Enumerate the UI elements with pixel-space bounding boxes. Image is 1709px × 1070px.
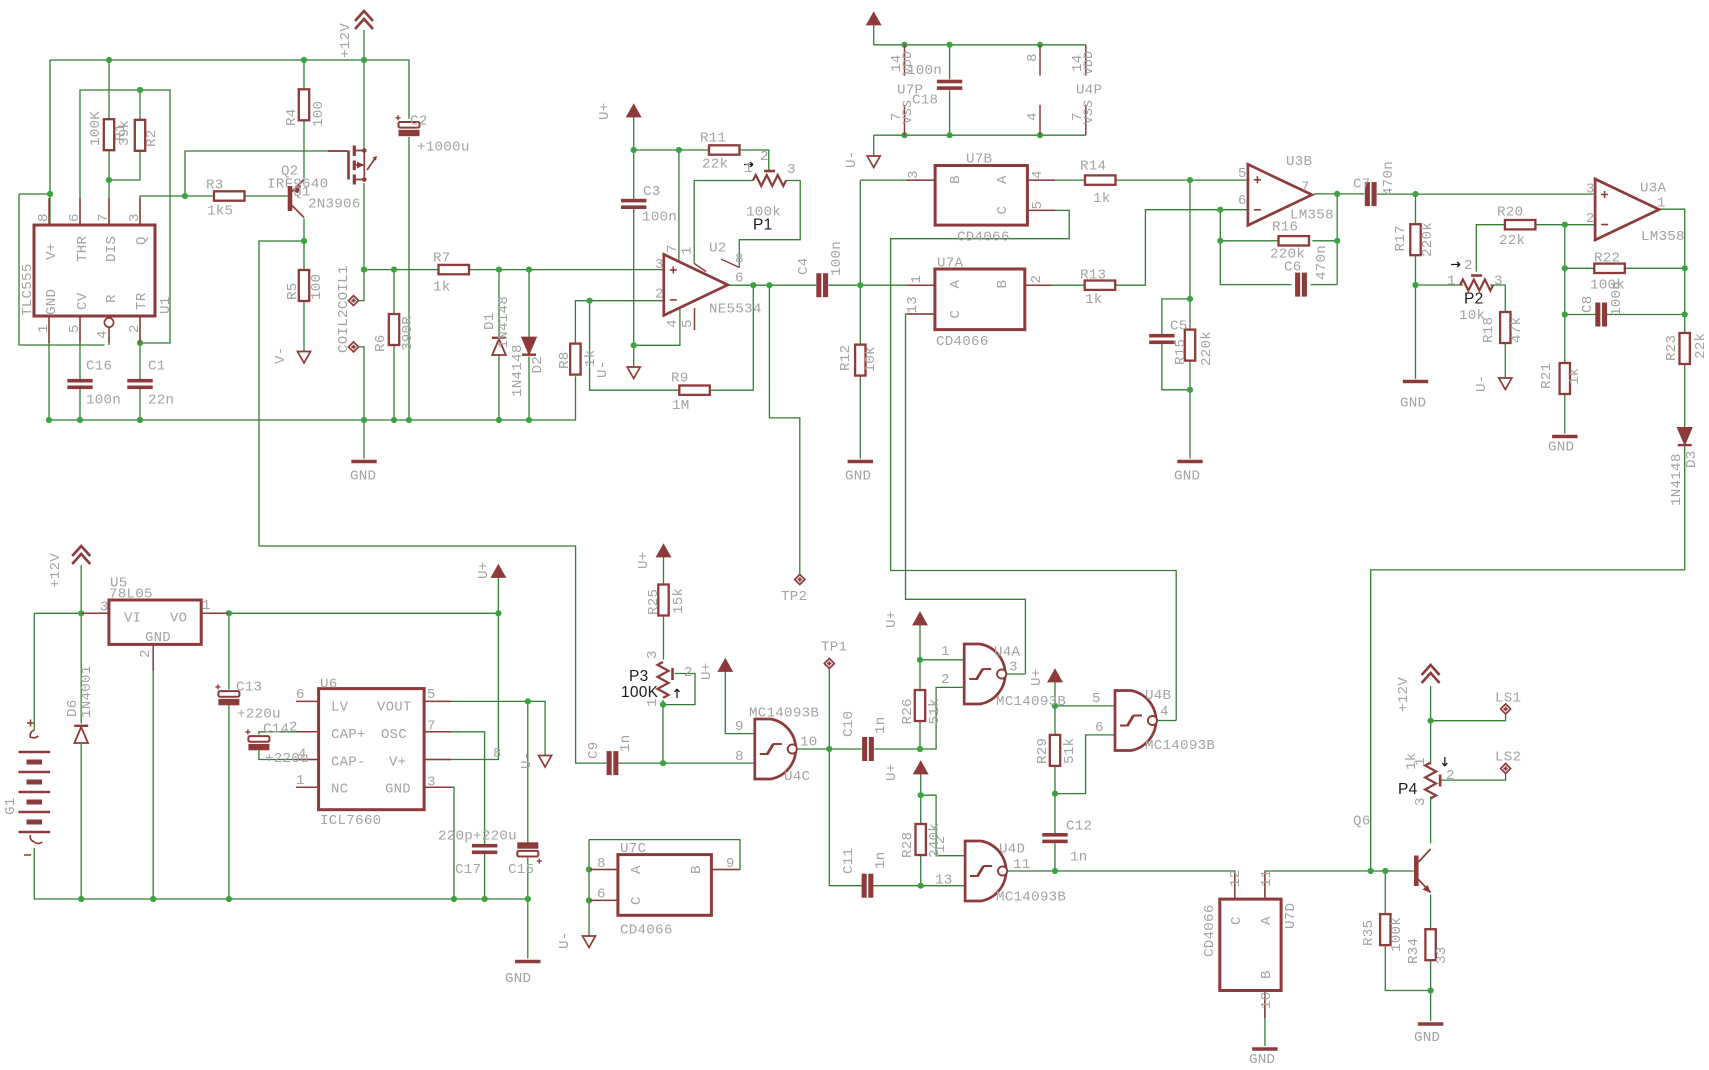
node oscillator junctions	[660, 657, 1058, 889]
wire coil pin 1 to ground	[359, 347, 365, 420]
wire R23 to D3	[1684, 364, 1686, 428]
svg-text:470n: 470n	[1314, 245, 1330, 280]
svg-text:3: 3	[1494, 274, 1503, 290]
capacitor C13	[215, 684, 239, 705]
potentiometer P1	[753, 171, 786, 186]
wire R6 top	[393, 270, 395, 314]
wire +5V rail	[229, 612, 499, 614]
wire C1 to ground rail	[139, 389, 141, 420]
svg-text:Q6: Q6	[1353, 814, 1371, 830]
capacitor C12	[1042, 833, 1067, 843]
wire D1 top	[498, 270, 500, 337]
svg-text:5: 5	[1030, 201, 1046, 210]
wire to C8 left	[1565, 314, 1596, 316]
svg-text:B: B	[689, 865, 705, 874]
wire VOUT to C15	[527, 701, 529, 843]
svg-text:2: 2	[1446, 768, 1455, 784]
svg-text:R18: R18	[1481, 317, 1497, 343]
IC U5 78L05	[109, 600, 201, 644]
transistor Q1	[290, 180, 304, 218]
svg-text:+12V: +12V	[1396, 677, 1412, 712]
svg-text:1k5: 1k5	[207, 204, 233, 220]
capacitor C4	[816, 273, 828, 297]
wire P1 pin1 to U2 pin1	[694, 181, 753, 264]
svg-text:TLC555: TLC555	[20, 263, 36, 316]
svg-text:1n: 1n	[873, 851, 889, 869]
svg-text:3: 3	[906, 170, 922, 179]
svg-text:C9: C9	[586, 741, 602, 759]
svg-text:A: A	[1259, 916, 1275, 925]
power U+ (U2)	[627, 105, 640, 117]
resistor R5	[299, 270, 309, 301]
svg-text:4: 4	[1025, 112, 1041, 121]
diode D3	[1678, 428, 1692, 445]
node VOUT junction	[525, 698, 531, 704]
wire C18 top	[949, 45, 951, 80]
svg-text:C: C	[1229, 916, 1245, 925]
power pins U3P	[1039, 45, 1041, 135]
power +12V (supply)	[72, 546, 90, 564]
wire U6 GND pin 3	[424, 787, 454, 899]
capacitor C3	[621, 199, 646, 209]
resistor R4	[299, 89, 309, 120]
svg-text:MC14093B: MC14093B	[749, 706, 819, 722]
wire D1 bottom	[498, 356, 500, 421]
wire U7B pin 3	[860, 179, 935, 181]
wire C7 to U3A pin 3	[1377, 193, 1595, 195]
node C5 R15 junctions	[1187, 177, 1193, 393]
resistor R9	[679, 386, 710, 395]
wire U7B pin3 drop	[859, 180, 861, 285]
wire R8 top	[575, 301, 589, 344]
wire C3 to U- node	[633, 208, 635, 345]
power V- (U6 VOUT)	[539, 756, 552, 768]
node V+ rail junctions	[106, 57, 367, 63]
wire inv node down	[1564, 225, 1566, 269]
wire R18 to V-	[1504, 343, 1506, 378]
svg-text:C14: C14	[263, 722, 289, 738]
svg-text:3: 3	[655, 257, 664, 273]
svg-text:100n: 100n	[642, 210, 677, 226]
IC U7C CD4066	[618, 855, 712, 916]
node U+ C3 junctions	[631, 147, 682, 349]
svg-text:C2: C2	[410, 114, 428, 130]
svg-text:R21: R21	[1539, 363, 1555, 389]
resistor R21	[1560, 363, 1570, 394]
svg-text:390R: 390R	[400, 316, 416, 351]
wire R28 bottom	[920, 855, 922, 886]
power pins U7P	[904, 45, 906, 135]
wire to U4A pin 2	[920, 687, 964, 749]
svg-text:22n: 22n	[148, 393, 174, 409]
svg-text:Q: Q	[134, 236, 150, 245]
wire U3B output to C7	[1314, 193, 1364, 195]
svg-text:VSS: VSS	[1081, 100, 1096, 124]
svg-text:B: B	[995, 280, 1011, 289]
power V- (R5)	[298, 352, 311, 364]
wire to R21 top	[1564, 315, 1566, 364]
svg-text:U2: U2	[709, 241, 727, 257]
wire D2 top	[528, 270, 530, 338]
svg-text:10: 10	[1259, 991, 1275, 1009]
svg-text:OSC: OSC	[381, 727, 407, 743]
wire Q1 collector to R5	[303, 219, 305, 271]
svg-text:1n: 1n	[618, 734, 634, 752]
resistor R16	[1279, 236, 1310, 245]
wire U7B pin5 to U4B output	[891, 210, 1177, 720]
IC U1 TLC555	[34, 225, 155, 316]
svg-text:1: 1	[1413, 757, 1429, 766]
capacitor C1	[127, 379, 152, 389]
svg-text:5: 5	[1238, 166, 1247, 182]
wire V+ to R4 top	[303, 60, 305, 89]
resistor R11	[709, 145, 740, 154]
wire R1 bottom to DIS pin 7	[108, 150, 110, 225]
wire R17 bottom	[1415, 255, 1417, 285]
svg-text:CD4066: CD4066	[936, 334, 989, 350]
svg-text:CAP+: CAP+	[331, 727, 366, 743]
wire C11 to U4D pin 13	[873, 885, 965, 887]
NAND gate U4D MC14093B	[965, 841, 1007, 901]
wire C12 to U4D output row	[1054, 843, 1056, 871]
svg-text:51k: 51k	[927, 698, 943, 724]
svg-text:C7: C7	[1353, 177, 1371, 193]
power U- (U2)	[627, 367, 640, 379]
svg-text:R1: R1	[113, 123, 129, 141]
wire U+ row to R11	[634, 149, 709, 151]
svg-text:7: 7	[427, 719, 436, 735]
wire C8 right	[1607, 314, 1685, 316]
svg-text:1: 1	[202, 598, 211, 614]
wire down to C8	[1564, 268, 1566, 314]
svg-text:VDD: VDD	[1081, 51, 1096, 75]
svg-text:1: 1	[1447, 274, 1456, 290]
svg-text:3: 3	[1586, 182, 1595, 198]
svg-text:U-: U-	[519, 751, 535, 769]
svg-text:8: 8	[1025, 53, 1041, 62]
connector pin COIL2	[349, 296, 359, 306]
svg-text:2: 2	[655, 287, 664, 303]
wire reset loop to pin 4	[19, 194, 105, 345]
svg-text:GND: GND	[44, 289, 60, 315]
svg-text:R34: R34	[1406, 938, 1422, 964]
svg-text:100: 100	[311, 101, 327, 127]
U2 comp pin leads	[694, 259, 739, 272]
resistor R15	[1185, 330, 1195, 361]
svg-text:CD4066: CD4066	[1202, 904, 1218, 957]
svg-text:3: 3	[1413, 797, 1429, 806]
ground GND C15	[515, 960, 540, 964]
svg-text:U7B: U7B	[966, 152, 992, 168]
svg-text:GND: GND	[1174, 469, 1200, 485]
capacitor C16	[67, 379, 92, 389]
svg-text:C11: C11	[841, 848, 857, 874]
wire R11 to P1 wiper	[740, 150, 769, 172]
svg-text:MC14093B: MC14093B	[996, 890, 1066, 906]
wire +12V rail to U5	[34, 612, 109, 614]
power U+ (U7P)	[867, 13, 880, 25]
wire U6 CAP+ to C14	[259, 732, 319, 735]
wire 555 output Q	[140, 196, 185, 225]
svg-text:51k: 51k	[1062, 738, 1078, 764]
power U+ (R25)	[657, 545, 670, 557]
wire C15 to ground rail	[527, 858, 529, 899]
svg-text:C4: C4	[796, 257, 812, 275]
svg-text:5: 5	[427, 687, 436, 703]
svg-text:1k: 1k	[433, 280, 451, 296]
wire VSS rail to U- arrow	[873, 135, 875, 156]
wire ground stem	[527, 899, 529, 959]
svg-text:R12: R12	[838, 345, 854, 371]
wire U5 VO	[201, 612, 229, 614]
wire R15 to GND	[1189, 390, 1191, 459]
svg-text:C18: C18	[912, 93, 938, 109]
svg-text:U4A: U4A	[994, 645, 1021, 661]
svg-text:1: 1	[941, 644, 950, 660]
transistor Q6	[1416, 849, 1431, 893]
svg-text:+12V: +12V	[48, 553, 64, 588]
wire P4 wiper to LS2	[1441, 774, 1506, 780]
svg-text:MC14093B: MC14093B	[996, 694, 1066, 710]
svg-text:1: 1	[680, 246, 696, 255]
svg-text:D2: D2	[530, 356, 546, 374]
power V- (R18)	[1499, 378, 1512, 390]
wire CV pin5 to C16	[79, 316, 81, 379]
capacitor C8	[1595, 303, 1607, 327]
svg-text:CV: CV	[75, 292, 91, 310]
svg-text:R13: R13	[1080, 268, 1106, 284]
wire to C11 left	[829, 749, 862, 886]
capacitor C15	[517, 842, 542, 863]
svg-text:1M: 1M	[672, 398, 690, 414]
svg-text:CD4066: CD4066	[957, 230, 1010, 246]
resistor R14	[1085, 175, 1116, 184]
wire U4A output	[1007, 673, 1026, 675]
wire to R29 top	[1054, 706, 1056, 735]
power pins U4P	[1085, 45, 1087, 135]
wire P4 pin3 to Q6 collector	[1430, 796, 1432, 843]
svg-text:GND: GND	[145, 630, 171, 646]
svg-text:COIL2COIL1: COIL2COIL1	[336, 265, 352, 353]
wire U4C output to C10	[797, 748, 862, 750]
svg-text:U-: U-	[1474, 374, 1490, 392]
svg-text:5: 5	[1092, 691, 1101, 707]
svg-text:1: 1	[645, 698, 661, 707]
wire to R35 top	[1384, 871, 1386, 914]
svg-text:6: 6	[1095, 720, 1104, 736]
resistor R26	[915, 690, 925, 721]
svg-text:U3B: U3B	[1286, 154, 1312, 170]
op-amp U3B LM358	[1248, 164, 1312, 225]
wire R34 to GND	[1430, 960, 1432, 1021]
wire to R16 left	[1220, 240, 1278, 242]
svg-text:100: 100	[309, 274, 325, 300]
diode D6	[74, 726, 88, 743]
svg-text:CAP-: CAP-	[331, 755, 366, 771]
svg-text:R25: R25	[646, 589, 662, 615]
wire U7A pin2 to R13	[1025, 284, 1085, 286]
wire VDD rail	[874, 44, 1086, 46]
svg-text:U+: U+	[884, 610, 900, 628]
node +5V rail junctions	[78, 610, 501, 616]
wire R20 to U3A pin 2	[1535, 224, 1595, 226]
svg-text:8: 8	[597, 856, 606, 872]
wire Q6 emitter to R34	[1430, 895, 1432, 930]
wire MOSFET drain to coil pin 2	[359, 183, 365, 301]
wire P3 wiper loop	[663, 674, 695, 705]
svg-text:C: C	[948, 310, 964, 319]
resistor R17	[1410, 224, 1420, 255]
wire +12V to LS1 node	[1430, 686, 1432, 721]
svg-text:10: 10	[800, 735, 818, 751]
wire drain to R7	[364, 269, 439, 271]
svg-text:220k: 220k	[1420, 222, 1436, 257]
wire C9 to U4C pin 8	[619, 762, 755, 764]
svg-text:100n: 100n	[1609, 281, 1625, 316]
wire U3B feedback vertical	[1336, 194, 1338, 285]
wire R14 to U3B pin 5	[1116, 179, 1248, 181]
wire R16 right	[1312, 240, 1337, 242]
battery G1	[19, 720, 51, 856]
svg-text:R17: R17	[1393, 225, 1409, 251]
wire P1 pin3 to U2 pin8	[739, 181, 800, 268]
svg-text:4: 4	[95, 330, 111, 339]
wire ground rail	[49, 376, 576, 420]
wire to P4 pin 1	[1430, 721, 1432, 765]
svg-text:U-: U-	[557, 931, 573, 949]
wire to C13	[228, 613, 230, 689]
wire to R17 top	[1415, 194, 1417, 224]
svg-text:R22: R22	[1594, 251, 1620, 267]
wire pin4 bubble stem	[108, 328, 110, 346]
svg-text:C: C	[629, 896, 645, 905]
wire V+ to R1 top	[108, 60, 110, 119]
wire U3B pin6 branch	[1219, 210, 1221, 241]
svg-text:7: 7	[96, 213, 112, 222]
power U+ (U4B)	[1049, 670, 1062, 682]
svg-text:C12: C12	[1066, 819, 1092, 835]
ground GND 555	[351, 460, 376, 464]
svg-text:LS1: LS1	[1495, 691, 1521, 707]
svg-text:9: 9	[735, 719, 744, 735]
svg-text:470n: 470n	[1381, 161, 1397, 196]
wire to D6 cathode	[80, 613, 82, 723]
wire R9 to output	[710, 285, 754, 390]
svg-text:1N4148: 1N4148	[1669, 453, 1685, 506]
svg-text:P1: P1	[753, 217, 772, 234]
wire U2 pin 2 row	[590, 300, 664, 302]
wire U7C loop pin 9	[589, 840, 740, 870]
wire to R12 top	[859, 285, 861, 344]
power U+ (U6)	[492, 566, 505, 578]
wire to U2 pin 7	[678, 150, 680, 262]
wire U2 pin 4	[634, 306, 680, 346]
svg-text:6: 6	[67, 213, 83, 222]
wire U7D pin 11 to Q6 base	[1265, 871, 1371, 899]
wire Q1 collector to C9	[259, 241, 606, 763]
svg-text:100n: 100n	[86, 393, 121, 409]
resistor R34	[1425, 929, 1435, 960]
wire C10 to R26 node	[874, 748, 920, 750]
connector pin LS1	[1501, 704, 1511, 714]
node U3A junctions	[1412, 191, 1687, 318]
svg-text:11: 11	[1259, 869, 1275, 887]
svg-text:R16: R16	[1272, 220, 1298, 236]
svg-text:2: 2	[1464, 258, 1473, 274]
svg-text:MC14093B: MC14093B	[1145, 738, 1215, 754]
svg-text:U6: U6	[320, 677, 338, 693]
svg-text:U+: U+	[597, 102, 613, 120]
svg-text:+220u: +220u	[237, 707, 281, 723]
wire to 555 pin 8	[49, 194, 51, 225]
wire reset net horizontal	[19, 193, 50, 195]
wire U+ to U4A pin1 node	[919, 625, 921, 660]
svg-text:GND: GND	[1249, 1052, 1275, 1068]
svg-text:C16: C16	[86, 359, 112, 375]
svg-text:15k: 15k	[671, 588, 687, 614]
wire R35 bottom loop	[1385, 945, 1430, 990]
svg-text:100k: 100k	[1389, 917, 1405, 952]
capacitor C17	[472, 844, 497, 854]
svg-text:6: 6	[296, 687, 305, 703]
power +12V (top)	[355, 11, 373, 29]
wire to P2 pin 1	[1416, 284, 1464, 286]
svg-text:V+: V+	[44, 242, 60, 260]
svg-text:8: 8	[493, 746, 502, 762]
IC U7D CD4066	[1220, 899, 1281, 990]
svg-text:4: 4	[1030, 170, 1046, 179]
svg-text:1k: 1k	[1085, 292, 1103, 308]
wire R5 to V-	[303, 301, 305, 352]
capacitor C5	[1149, 334, 1174, 344]
wire ground stem	[363, 420, 365, 459]
wire U4B output	[1157, 720, 1176, 722]
svg-text:U+: U+	[1029, 668, 1045, 686]
svg-text:U+: U+	[699, 662, 715, 680]
svg-text:U3A: U3A	[1640, 181, 1667, 197]
svg-text:1k: 1k	[1567, 367, 1583, 385]
svg-text:8: 8	[735, 252, 744, 268]
wire R26 bottom	[919, 721, 921, 749]
wire U4D output to U7D pin 12	[1004, 871, 1235, 899]
wire to U4D pin 12	[921, 795, 965, 856]
svg-text:4: 4	[665, 319, 681, 328]
svg-text:C3: C3	[643, 184, 661, 200]
resistor R13	[1085, 281, 1116, 290]
wire U6 VOUT to V-	[424, 701, 545, 755]
svg-text:7: 7	[1301, 180, 1310, 196]
svg-text:CD4066: CD4066	[620, 923, 673, 939]
node U7C junctions	[586, 866, 592, 903]
wire to R26 top	[919, 660, 921, 690]
resistor R2	[135, 120, 145, 151]
svg-text:C: C	[995, 206, 1011, 215]
IC U6 ICL7660	[319, 689, 425, 810]
svg-text:NE5534: NE5534	[709, 302, 762, 318]
svg-text:U7D: U7D	[1283, 903, 1299, 929]
op-amp U3A LM358	[1595, 179, 1659, 240]
U5 pin stubs	[82, 613, 228, 671]
svg-text:1: 1	[296, 773, 305, 789]
NAND gate U4B MC14093B	[1115, 691, 1157, 751]
wire R3 to Q1 base	[244, 195, 288, 197]
svg-text:1n: 1n	[1070, 850, 1088, 866]
svg-text:+1000u: +1000u	[417, 140, 470, 156]
wire THR-TR loop	[80, 90, 170, 343]
svg-text:GND: GND	[1548, 440, 1574, 456]
svg-text:1: 1	[744, 161, 753, 177]
diode D2	[522, 338, 536, 355]
